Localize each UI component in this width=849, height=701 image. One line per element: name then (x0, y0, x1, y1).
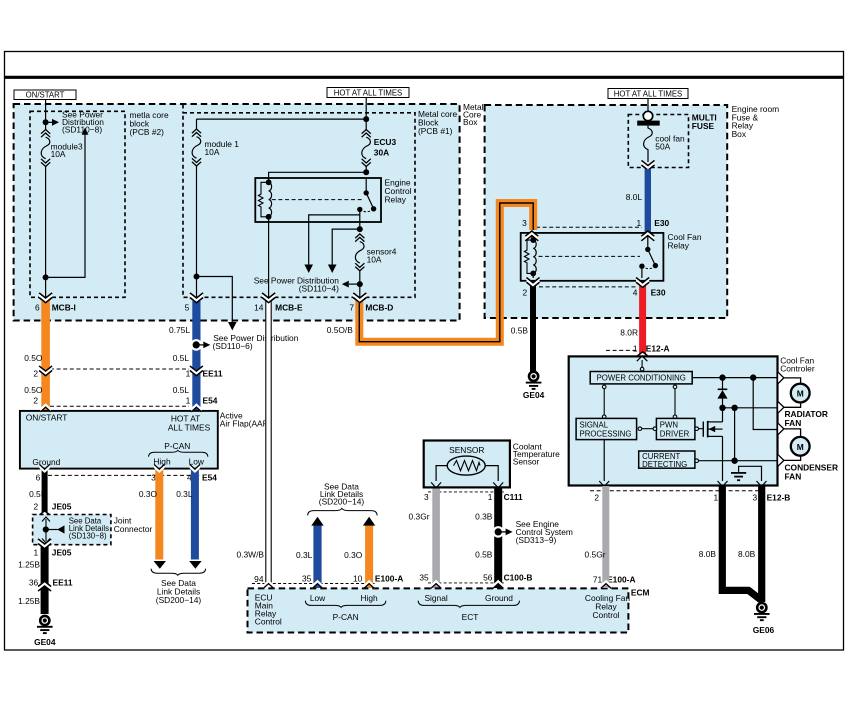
svg-text:3: 3 (424, 492, 429, 502)
label Cool Fan Relay (668, 232, 702, 250)
node junction dot module3 top (43, 119, 49, 125)
motor M1 radiator fan (784, 378, 810, 407)
svg-text:FAN: FAN (785, 471, 802, 481)
wire CD output to triangle4 (695, 459, 777, 463)
wire arrow to See Power Distribution SD110-8 (46, 119, 59, 126)
svg-text:GE04: GE04 (523, 390, 545, 400)
svg-text:M: M (797, 442, 804, 452)
label metla core block (PCB #2) (130, 110, 169, 137)
svg-text:10A: 10A (367, 255, 382, 265)
pin 3 connector chevron relay (525, 231, 538, 242)
svg-text:1: 1 (186, 396, 191, 406)
resistor parallel with ECR coil (258, 182, 268, 217)
fuse ECU3 30A (362, 119, 397, 166)
wire SP to PWN link (638, 427, 657, 431)
node HOT AT ALL TIMES (left) (327, 88, 409, 98)
wire 0.5B relay pin2 to GE04 (530, 286, 536, 372)
block U3 signal processing (576, 418, 637, 439)
label pin 56 C100-B (483, 572, 532, 582)
node junction dot sensor4 out (357, 281, 363, 287)
pin arrow controller pin3 (757, 481, 767, 487)
node C111 pin line dashed (428, 491, 505, 493)
label pin 1 C111 (488, 492, 523, 502)
sensor box coolant temperature sensor (424, 441, 510, 488)
svg-text:1: 1 (633, 343, 638, 353)
svg-text:8.0B: 8.0B (738, 549, 756, 559)
svg-text:Sensor: Sensor (513, 456, 540, 466)
brace ECT in ECM (418, 601, 519, 608)
label pin 14 MCB-E (254, 302, 303, 312)
wire divider dash between PCB boxes (182, 105, 184, 114)
svg-text:10: 10 (353, 573, 363, 583)
fan output triangle1 (778, 372, 784, 384)
block U4 PWN driver (656, 418, 695, 439)
svg-text:0.3L: 0.3L (296, 550, 313, 560)
wire module1 to pin 5 (196, 166, 198, 301)
svg-text:71: 71 (593, 575, 603, 585)
svg-text:10A: 10A (51, 149, 66, 159)
node tap dot to SD313-9 (492, 526, 512, 538)
node tap dot on 0.75L to SD110-6 (190, 339, 210, 351)
wire branch to SD110-6 down arrow (197, 277, 237, 331)
pin arrow controller pin1 (718, 481, 728, 487)
label Cool Fan Controler (780, 356, 815, 374)
svg-text:JE05: JE05 (52, 547, 72, 557)
wire 0.3L Low AAF pin4 down (blue) (191, 469, 199, 560)
svg-text:10A: 10A (205, 147, 220, 157)
svg-text:4: 4 (633, 288, 638, 298)
pin 1 connector chevron relay (641, 231, 654, 242)
svg-text:DETECTING: DETECTING (642, 460, 687, 469)
svg-text:3: 3 (522, 218, 527, 228)
ground internal controller (731, 466, 762, 481)
label Active Air Flap(AAF) (220, 410, 271, 428)
wire 8.0B controller pin1 to GE06 (black) (722, 486, 761, 601)
fuse box MULTI FUSE (dashed) (628, 115, 688, 168)
svg-text:50A: 50A (655, 142, 670, 152)
svg-text:1: 1 (186, 368, 191, 378)
label ECU Main Relay Control (255, 593, 282, 627)
wire 8.0B controller pin3 to GE06 (black) (758, 486, 765, 602)
label Engine room Fuse & Relay Box (732, 104, 780, 139)
svg-text:(SD110−4): (SD110−4) (299, 284, 339, 294)
wire PC output rail y377.6 (692, 377, 776, 379)
node dot x734.6 y407.8 (731, 405, 737, 411)
connector JE05 pin1 chevron (38, 539, 51, 550)
svg-text:0.5L: 0.5L (173, 385, 190, 395)
ground GE04 (right) (523, 372, 545, 400)
label pin 1 E12-A (633, 343, 670, 353)
wire 0.75L/0.5L pin5 to AAF pin1 (blue) (192, 301, 200, 412)
pin chevron ECM 71 (601, 580, 611, 589)
label HOT AT ALL TIMES inside AAF (168, 414, 211, 433)
svg-text:2: 2 (34, 502, 39, 512)
label pin 1 JE05 (34, 547, 72, 557)
brace under P-CAN pair (151, 569, 206, 576)
wire 8.0L multi fuse to relay pin1 (645, 169, 651, 232)
label See Power Distribution (SD110-8) (62, 109, 104, 134)
wire 1.25B JE05 to EE11 (41, 546, 49, 614)
svg-text:(PCB #2): (PCB #2) (130, 127, 165, 137)
svg-text:ALL TIMES: ALL TIMES (168, 422, 211, 432)
svg-text:(SD130−8): (SD130−8) (69, 531, 107, 540)
wire 0.3W/B MCB-E pin14 to ECM pin94 (white w black edges) (265, 300, 271, 585)
pin chevron multi fuse out (642, 160, 655, 171)
svg-text:30A: 30A (374, 147, 389, 157)
svg-text:E100-A: E100-A (375, 573, 403, 583)
wire 0.3B/0.5B sensor ground to ECM (black) (494, 489, 502, 589)
label pin 2 JE05 (34, 502, 72, 512)
label See Power Distribution (SD110-4) (254, 276, 340, 294)
pin arrow controller pin2 (599, 481, 609, 487)
svg-text:HOT AT ALL TIMES: HOT AT ALL TIMES (614, 89, 682, 98)
svg-text:C111: C111 (504, 492, 523, 502)
svg-text:0.5B: 0.5B (475, 549, 493, 559)
svg-text:(SD200−14): (SD200−14) (156, 595, 202, 605)
svg-text:EE11: EE11 (53, 577, 73, 587)
module ECM box (dashed) (248, 588, 629, 632)
svg-text:PWN: PWN (660, 421, 678, 430)
svg-text:0.75L: 0.75L (169, 325, 190, 335)
svg-text:(SD200−14): (SD200−14) (319, 496, 365, 506)
svg-text:56: 56 (483, 572, 493, 582)
node C100-B pin line dashed (428, 582, 505, 584)
svg-text:Controler: Controler (780, 364, 815, 374)
label Signal / Ground (424, 593, 513, 603)
node E12-A pin dashes (606, 349, 637, 351)
fan output triangle3 (778, 423, 784, 435)
svg-text:GE06: GE06 (753, 625, 775, 635)
pin 5 connector chevron (190, 293, 203, 304)
arrow down end of 0.3L (189, 561, 201, 569)
pin 7 MCB-D connector chevron (353, 293, 366, 304)
pin chevron AAF bottom orange (154, 464, 164, 473)
node dot x734.6 y460.7 (731, 458, 737, 464)
pin chevron ECM 35 signal (431, 580, 441, 589)
svg-text:0.5B: 0.5B (511, 326, 529, 336)
fuse module3 10A (41, 122, 83, 166)
svg-text:7: 7 (349, 302, 354, 312)
svg-text:ECU3: ECU3 (374, 137, 397, 147)
node junction dot feed (363, 116, 369, 122)
svg-text:E100-A: E100-A (607, 575, 635, 585)
svg-text:0.3Gr: 0.3Gr (409, 512, 430, 522)
wire HOT-right lead (647, 99, 649, 112)
wire 0.3O ECM High riser (orange) (365, 525, 373, 589)
svg-text:E30: E30 (654, 218, 669, 228)
svg-text:MCB-E: MCB-E (275, 302, 303, 312)
connector EE11 chevron on orange (39, 366, 52, 377)
svg-text:3: 3 (753, 492, 758, 502)
header thick rule (4, 76, 844, 79)
svg-text:E12-A: E12-A (646, 343, 670, 353)
pin chevron AAF top blue (191, 403, 201, 412)
label pin 4 E54 (187, 473, 217, 483)
label See Data Link Details (SD130-8) (69, 516, 109, 540)
block U2 power conditioning (590, 372, 692, 384)
thermistor symbol (447, 456, 485, 475)
pin 1 E12-A connector chevron (636, 351, 649, 362)
wire 0.5O MCB-I pin6 to AAF pin2 (orange) (41, 301, 50, 412)
svg-text:MCB-I: MCB-I (52, 302, 76, 312)
svg-text:35: 35 (419, 572, 429, 582)
relay ECR coil (266, 179, 272, 219)
label Cooling Fan Relay Control (585, 593, 631, 620)
svg-text:6: 6 (36, 473, 41, 483)
svg-text:2: 2 (33, 368, 38, 378)
joint connector box (dashed) (33, 515, 111, 545)
svg-text:P-CAN: P-CAN (164, 441, 190, 451)
label pin 6 MCB-I (35, 302, 76, 312)
svg-text:MCB-D: MCB-D (365, 302, 393, 312)
pin 4 connector chevron (636, 277, 649, 288)
relay U-ECR engine control relay box (255, 178, 381, 222)
node E30 pin line (bottom) dashed (539, 286, 637, 288)
fuse cool fan 50A (644, 126, 685, 162)
relay K1 cool fan relay box (521, 233, 664, 281)
svg-text:(SD313−9): (SD313−9) (516, 535, 557, 545)
wire switch out to SD110-4 arrows (304, 209, 362, 273)
svg-text:E30: E30 (651, 288, 666, 298)
wire module3 to MCB-I pin6 (45, 167, 47, 302)
label pin 71 E100-A (593, 575, 636, 585)
label RADIATOR FAN (785, 409, 828, 428)
svg-text:Control: Control (593, 610, 620, 620)
pin chevron ECM 35 Low (312, 580, 322, 589)
svg-text:(SD110−6): (SD110−6) (213, 341, 253, 351)
wire 0.3O High AAF pin3 down (orange) (155, 469, 163, 560)
fan output triangle2 (778, 401, 784, 413)
wire sensor4 to MCB-D (359, 271, 361, 300)
wire 0.5O/B from MCB-D pin7 to relay pin3 (orange w black stripe) (359, 203, 533, 342)
label pin 1 EE11 (blue) (186, 368, 223, 378)
svg-text:High: High (153, 456, 171, 466)
svg-text:36: 36 (29, 577, 39, 587)
svg-text:Ground: Ground (32, 457, 60, 467)
relay K1 switch (639, 235, 658, 278)
metal core block PCB#2 inner box (30, 111, 125, 297)
svg-text:ECT: ECT (462, 612, 479, 622)
node dot rail2 (750, 374, 756, 380)
svg-text:1: 1 (488, 492, 493, 502)
node terminal circle multi fuse (643, 111, 652, 120)
ground GE06 (753, 603, 775, 635)
label Metal core Block (PCB #1) (418, 109, 457, 136)
svg-text:35: 35 (302, 573, 312, 583)
label See Data Link Details (SD200-14) right (319, 482, 365, 507)
svg-text:Relay: Relay (385, 195, 407, 205)
multi fuse bar (637, 121, 660, 126)
svg-text:E54: E54 (203, 396, 218, 406)
pin 94 chevron at ECM (263, 580, 273, 589)
svg-text:0.5B: 0.5B (29, 489, 47, 499)
svg-text:1: 1 (637, 218, 642, 228)
wire 0.5Gr controller pin2 to ECM pin71 (gray) (602, 486, 609, 588)
wire 0.3Gr sensor to ECM (gray) (432, 489, 440, 589)
wire K1 link dashed (539, 255, 641, 257)
svg-text:0.3B: 0.3B (475, 512, 493, 522)
label MULTI FUSE (692, 113, 717, 131)
svg-text:EE11: EE11 (203, 368, 223, 378)
node EE11 pin line dashed (50, 368, 189, 370)
wire 0.3L ECM Low riser (blue) (313, 525, 321, 589)
svg-text:0.3O: 0.3O (344, 550, 363, 560)
label Low / High (310, 593, 378, 603)
wire 0.5B AAF pin6 down (42, 469, 48, 512)
svg-text:FUSE: FUSE (692, 121, 715, 131)
svg-text:8.0R: 8.0R (620, 327, 638, 337)
svg-text:ECM: ECM (631, 587, 650, 597)
svg-text:HOT AT ALL TIMES: HOT AT ALL TIMES (334, 88, 402, 97)
svg-text:C100-B: C100-B (504, 572, 533, 582)
node E100-A pin line dashed (252, 583, 376, 585)
diode D1 (717, 389, 727, 398)
label pin 1 E54 (blue) (186, 396, 218, 406)
svg-text:(PCB #1): (PCB #1) (418, 126, 453, 136)
node E12-B pin line dashed (590, 490, 765, 492)
svg-text:8.0B: 8.0B (699, 549, 717, 559)
fan output triangle4 (778, 454, 784, 466)
wire feed bus to module1 (197, 118, 367, 120)
svg-text:1.25B: 1.25B (18, 596, 40, 606)
fuse module 1 10A (192, 119, 239, 166)
motor M2 condenser fan (784, 429, 810, 461)
pin 6 MCB-I connector chevron (39, 293, 52, 304)
wire SP down to pin2 (603, 440, 605, 481)
pin 2 connector chevron (527, 277, 540, 288)
pin arrow sensor 1 (493, 482, 503, 488)
svg-text:Air Flap(AAF): Air Flap(AAF) (220, 419, 271, 429)
terminal circles under PC (602, 385, 676, 419)
connector JE05 pin2 chevron (38, 510, 51, 521)
wire sensor right leg (485, 466, 498, 481)
svg-text:(SD110−8): (SD110−8) (62, 124, 102, 134)
svg-text:Relay: Relay (668, 240, 690, 250)
svg-text:Low: Low (310, 593, 326, 603)
transistor Q1 MOSFET (703, 421, 722, 438)
svg-text:8.0L: 8.0L (626, 192, 643, 202)
wire HOT-left lead (365, 98, 367, 119)
svg-text:SIGNAL: SIGNAL (580, 421, 609, 430)
label See Engine Control System (SD313-9) (516, 519, 573, 545)
svg-text:ON/START: ON/START (26, 91, 65, 100)
engine room fuse and relay box (dashed) (485, 105, 728, 318)
node E30 pin line (top) dashed (536, 226, 642, 228)
node E54 bottom pin line dashed (48, 474, 200, 476)
pin chevrons redrawn over wires (39, 293, 52, 304)
node junction dot module1 bottom (194, 274, 200, 280)
wire ON/START lead into module3 (45, 100, 47, 123)
svg-text:5: 5 (185, 302, 190, 312)
svg-text:2: 2 (594, 492, 599, 502)
svg-text:JE05: JE05 (52, 502, 72, 512)
wire arrow left to SD110-4 (342, 281, 360, 288)
svg-text:1.25B: 1.25B (18, 560, 40, 570)
label CONDENSER FAN (785, 462, 839, 481)
wire x734.6 down to CD line (734, 408, 736, 461)
svg-text:14: 14 (254, 302, 264, 312)
node ON/START header (14, 90, 76, 100)
node HOT AT ALL TIMES (right) (608, 89, 688, 99)
svg-text:6: 6 (35, 302, 40, 312)
svg-text:PROCESSING: PROCESSING (580, 430, 632, 439)
brace over ECM P-CAN risers (308, 508, 378, 515)
svg-text:Box: Box (463, 117, 478, 127)
svg-text:Ground: Ground (485, 593, 513, 603)
label See Data Link Details (SD200-14) left (156, 578, 202, 605)
svg-text:ON/START: ON/START (26, 413, 68, 423)
joint connector internal bus (42, 517, 65, 543)
wire rail x722.5 (722, 378, 724, 481)
label Metal Core Box (463, 102, 484, 127)
node E54 pin line dashed (50, 405, 189, 407)
connector EE11 chevron on blue (190, 366, 203, 377)
wire K1 coil to pin 2 (532, 273, 534, 278)
svg-text:Connector: Connector (114, 524, 153, 534)
label Joint Connector (114, 515, 153, 534)
wire relay coil feed (269, 172, 367, 182)
svg-text:0.3W/B: 0.3W/B (237, 550, 265, 560)
arrow up end 0.3O (363, 517, 375, 526)
metal core block PCB#1 inner box (183, 113, 415, 297)
label Coolant Temperature Sensor (513, 441, 560, 466)
module AAF active air flap box (20, 411, 218, 469)
metal core box outer (dashed) (14, 104, 460, 321)
label pin 7 MCB-D (349, 302, 393, 312)
svg-text:0.3O: 0.3O (139, 489, 158, 499)
wire 8.0R relay pin4 to E12-A (639, 286, 646, 357)
pin arrow sensor 3 (431, 482, 441, 488)
svg-text:M: M (797, 389, 804, 399)
fuse sensor4 10A (355, 234, 397, 271)
svg-text:High: High (360, 593, 378, 603)
label Engine Control Relay (385, 178, 412, 205)
svg-text:P-CAN: P-CAN (333, 612, 359, 622)
resistor parallel with K1 coil (524, 240, 533, 273)
node dot rail1 (719, 374, 725, 380)
svg-text:0.5Gr: 0.5Gr (585, 549, 606, 559)
node junction dot ECU3 out (363, 169, 369, 175)
wire ECR link dashed (272, 199, 364, 201)
pin chevron ECM 10 High (364, 580, 374, 589)
block U5 current detecting (639, 451, 695, 469)
svg-text:94: 94 (254, 574, 264, 584)
wire y407.8 to triangle2 (723, 407, 777, 409)
svg-text:2: 2 (523, 288, 528, 298)
brace P-CAN in ECM (305, 601, 386, 608)
svg-text:Signal: Signal (424, 593, 447, 603)
svg-text:POWER CONDITIONING: POWER CONDITIONING (597, 374, 686, 383)
svg-text:0.5O: 0.5O (24, 353, 43, 363)
arrow up end 0.3L (311, 517, 323, 526)
wire return branch to SD110-8 arrow (46, 128, 89, 278)
svg-text:FAN: FAN (785, 418, 802, 428)
arrow down end of 0.3O (154, 561, 166, 569)
pin 14 MCB-E connector chevron (262, 293, 275, 304)
label Ground / High / Low (32, 456, 205, 466)
label pin 4 E30 (633, 288, 666, 298)
svg-text:DRIVER: DRIVER (660, 430, 690, 439)
label pin 3 E12-B (753, 492, 791, 502)
label pin 10 E100-A (353, 573, 403, 583)
svg-text:1: 1 (714, 492, 719, 502)
svg-text:Control: Control (255, 617, 282, 627)
svg-text:SENSOR: SENSOR (449, 445, 484, 455)
module cool fan controller box (569, 356, 778, 485)
node junction dot module3 bottom (43, 274, 49, 280)
pin chevron AAF bottom black (39, 464, 49, 473)
svg-text:E12-B: E12-B (767, 492, 791, 502)
